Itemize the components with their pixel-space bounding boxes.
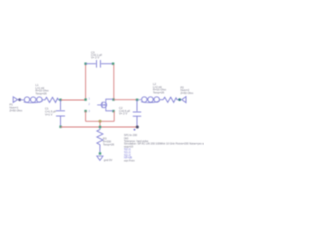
terminal node A bbox=[59, 99, 61, 101]
C3 right terminal bbox=[112, 63, 114, 65]
ground bbox=[97, 156, 103, 160]
simulation text block bbox=[124, 133, 234, 162]
svg-text:Z=50 Ohm: Z=50 Ohm bbox=[10, 109, 24, 113]
ground label bbox=[104, 158, 113, 162]
capacitor C3 left terminal bbox=[84, 63, 86, 65]
wire drain to C2 node bbox=[114, 99, 138, 101]
L1 R1 label bbox=[36, 83, 50, 95]
resistor R2 bbox=[160, 97, 179, 102]
simulation text marker bbox=[134, 129, 136, 131]
svg-text:Simulation: SP AC LIN 200 100M: Simulation: SP AC LIN 200 100MHz 10 GHz … bbox=[124, 142, 204, 146]
svg-text:1: 1 bbox=[89, 98, 91, 101]
resistor R3 bbox=[97, 128, 103, 146]
capacitor C3 feedback bbox=[86, 60, 113, 68]
C2 bottom terminal bbox=[136, 126, 139, 129]
node dot at P1 bbox=[18, 98, 21, 101]
svg-text:V= 2 V: V= 2 V bbox=[91, 56, 99, 60]
svg-text:2: 2 bbox=[89, 103, 91, 106]
svg-text:Z=50 Ohm: Z=50 Ohm bbox=[181, 91, 195, 95]
resistor R1 bbox=[43, 97, 61, 102]
node dot at P2 bbox=[178, 98, 181, 101]
wire source pin down bbox=[113, 111, 115, 121]
capacitor C1 bbox=[56, 111, 65, 127]
transistor T1 gate terminal bbox=[84, 98, 86, 100]
P2 label bbox=[181, 85, 195, 95]
ground rail wire bbox=[61, 126, 138, 128]
inductor L2 bbox=[138, 97, 160, 103]
capacitor C2 node terminal bbox=[136, 99, 138, 101]
C1 label bbox=[45, 107, 56, 117]
svg-text:V= 2 V: V= 2 V bbox=[119, 112, 127, 116]
svg-text:eqn Fmin: eqn Fmin bbox=[124, 158, 135, 162]
wire bulk pin down bbox=[85, 111, 87, 121]
R3 top terminal bbox=[99, 126, 101, 128]
R3 label bbox=[103, 137, 115, 147]
wire junction to ground rail bbox=[99, 121, 101, 127]
C1 bottom terminal bbox=[59, 126, 61, 128]
capacitor C2 bbox=[133, 112, 141, 127]
port P1 bbox=[13, 97, 19, 103]
svg-text:gnd 0V: gnd 0V bbox=[104, 158, 113, 162]
svg-text:Temp=26: Temp=26 bbox=[103, 143, 115, 147]
T1 pin labels bbox=[89, 98, 91, 114]
svg-text:V=1 V: V=1 V bbox=[45, 113, 53, 117]
svg-text:3: 3 bbox=[89, 110, 91, 113]
transistor T1 bbox=[97, 99, 113, 111]
source rail wire bbox=[86, 120, 115, 122]
R3 lead to ground bbox=[99, 147, 101, 154]
port P2 bbox=[182, 97, 186, 103]
transistor T1 drain terminal bbox=[112, 98, 114, 100]
wire vertical gate to top cap bbox=[85, 65, 87, 101]
L2 R2 label bbox=[153, 82, 167, 94]
P1 label bbox=[10, 103, 24, 113]
transistor T1 source terminal bbox=[112, 110, 114, 112]
wire P1 to L1 bbox=[20, 99, 24, 101]
C2 label bbox=[119, 106, 130, 116]
C3 label bbox=[91, 50, 102, 59]
wire node A to gate junction bbox=[61, 99, 86, 101]
source rail junction dot bbox=[99, 120, 102, 123]
capacitor C1 lead top bbox=[60, 100, 62, 110]
svg-text:Temp=26: Temp=26 bbox=[153, 90, 165, 94]
wire vertical top cap right to drain bbox=[113, 65, 115, 100]
svg-text:Temp=26: Temp=26 bbox=[36, 91, 48, 95]
capacitor C2 lead bbox=[136, 100, 138, 111]
transistor T1 bulk terminal bbox=[84, 110, 86, 112]
R3 bottom terminal bbox=[99, 152, 101, 154]
inductor L1 bbox=[24, 97, 43, 103]
